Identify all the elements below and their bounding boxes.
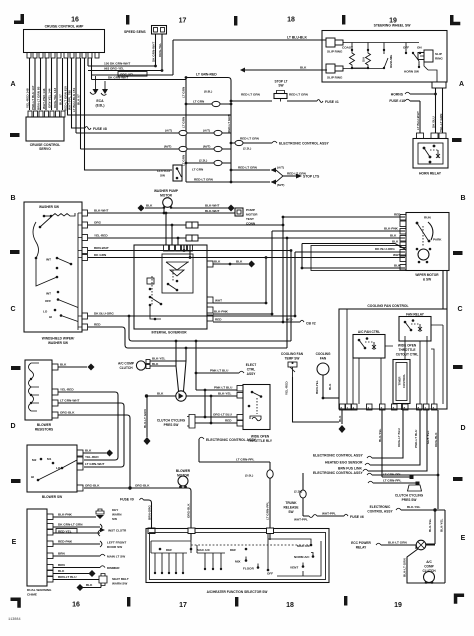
- svg-text:SW: SW: [160, 174, 165, 178]
- vertical riser BRN-WHT long: [290, 251, 292, 342]
- svg-text:DK BLU-ORG: DK BLU-ORG: [94, 312, 114, 316]
- wire WHT-PNK 146: [45, 58, 47, 110]
- svg-text:3: 3: [393, 406, 395, 410]
- svg-text:ORG-LT BLU: ORG-LT BLU: [213, 413, 233, 417]
- svg-text:ORG-BLK: ORG-BLK: [187, 503, 191, 518]
- svg-text:CLUTCH: CLUTCH: [119, 366, 133, 370]
- svg-text:ORG: ORG: [94, 221, 102, 225]
- svg-text:THROTTLE: THROTTLE: [399, 348, 416, 352]
- svg-text:ORG-BLK: ORG-BLK: [60, 411, 75, 415]
- dash right 2: [453, 251, 463, 255]
- wire ORG-YEL 143: [56, 58, 58, 110]
- chime pins: [47, 514, 53, 582]
- clutch cycling pres sw right: [408, 485, 422, 491]
- svg-text:ORG-YEL: ORG-YEL: [158, 43, 162, 57]
- wire BLK clutch: [150, 365, 176, 367]
- svg-text:BLK: BLK: [157, 392, 164, 396]
- svg-text:GRY-YEL: GRY-YEL: [426, 430, 430, 444]
- riser BLK-YEL 1: [434, 510, 436, 544]
- svg-text:DEF: DEF: [166, 548, 172, 552]
- wire LT GRN vertical: [185, 78, 187, 183]
- blower resistors R3: [25, 360, 52, 420]
- wire 963 ORG-YEL: [88, 70, 162, 72]
- svg-text:YEL-RED: YEL-RED: [285, 381, 289, 395]
- interval governor U3: [134, 245, 207, 329]
- svg-text:WHT-PPL: WHT-PPL: [294, 518, 308, 522]
- svg-text:BRN-ORG: BRN-ORG: [148, 505, 152, 520]
- svg-text:CLUTCH: CLUTCH: [157, 169, 170, 173]
- svg-text:16: 16: [71, 17, 79, 24]
- steering box wires inside: [343, 43, 419, 69]
- svg-text:WASHER SW: WASHER SW: [39, 205, 59, 209]
- wire BRN dimmer: [53, 567, 100, 569]
- svg-text:SLIP: SLIP: [435, 52, 442, 56]
- svg-text:BRN: BRN: [58, 552, 65, 556]
- svg-text:WHT: WHT: [393, 253, 400, 257]
- speed sensor wire DK GRN-WHT: [155, 34, 157, 66]
- svg-text:MAX A/C: MAX A/C: [297, 544, 311, 548]
- svg-text:150 DK GRN-WHT: 150 DK GRN-WHT: [104, 62, 130, 66]
- governor top pins: [164, 245, 193, 251]
- slip ring top: [326, 38, 335, 47]
- svg-text:(M/T): (M/T): [203, 145, 210, 149]
- svg-text:E: E: [461, 535, 466, 542]
- svg-text:LEFT FRONT: LEFT FRONT: [107, 541, 126, 545]
- vertical riser BLK-PNK: [271, 231, 273, 314]
- svg-text:MOTOR: MOTOR: [160, 194, 173, 198]
- svg-text:PARK: PARK: [433, 238, 442, 242]
- svg-text:RED: RED: [94, 323, 101, 327]
- wire ORG-BLK run to blower motor: [84, 488, 191, 528]
- amp connector pins: [27, 53, 99, 59]
- fuse #8: [85, 127, 91, 130]
- svg-text:RED: RED: [225, 419, 232, 423]
- svg-text:CONTROL: CONTROL: [402, 374, 406, 389]
- svg-text:LT GRN-PPL: LT GRN-PPL: [383, 479, 401, 483]
- svg-text:7: 7: [381, 406, 383, 410]
- svg-text:FUSE #6: FUSE #6: [350, 515, 364, 519]
- wire LT BLU-BLK top: [173, 39, 327, 41]
- svg-text:RED-LT GRN: RED-LT GRN: [240, 137, 260, 141]
- pump motor test conn: [235, 208, 243, 216]
- tick bottom 2: [235, 597, 238, 607]
- svg-text:LT GRN-PPL: LT GRN-PPL: [266, 502, 270, 520]
- svg-text:18: 18: [287, 17, 295, 24]
- svg-text:BLK-YEL: BLK-YEL: [152, 357, 166, 361]
- svg-text:HI: HI: [49, 315, 52, 319]
- svg-text:BLK: BLK: [146, 204, 153, 208]
- svg-text:COOLING: COOLING: [316, 352, 331, 356]
- svg-text:YEL-RED 148: YEL-RED 148: [26, 88, 30, 108]
- svg-text:DK BLU: DK BLU: [432, 116, 436, 128]
- svg-text:ELECTRONIC CONTROL ASSY: ELECTRONIC CONTROL ASSY: [279, 142, 329, 146]
- svg-text:FLOOR: FLOOR: [243, 567, 255, 571]
- throttle rly pins: [237, 386, 243, 427]
- dash left 3: [11, 366, 21, 370]
- svg-text:(8.8L): (8.8L): [204, 90, 212, 94]
- svg-text:S/A: S/A: [362, 56, 366, 62]
- wire BLK-WHT washer to test conn: [88, 212, 235, 214]
- wire WHT-PPL fuse6: [309, 515, 317, 518]
- dash left 4: [11, 479, 21, 483]
- svg-text:4: 4: [353, 406, 355, 410]
- svg-text:D: D: [460, 425, 465, 432]
- svg-text:1: 1: [347, 406, 349, 410]
- right bus from wiper: [442, 270, 444, 309]
- svg-text:C: C: [457, 306, 462, 313]
- wiper feed DK BLU-ORG: [295, 251, 405, 253]
- svg-text:D: D: [10, 423, 15, 430]
- svg-text:BLK-YEL: BLK-YEL: [440, 518, 444, 532]
- svg-text:MIX: MIX: [235, 560, 241, 564]
- svg-text:A/C FAN CTRL: A/C FAN CTRL: [358, 330, 380, 334]
- pressure sw wires ORG-LT BLU / RED: [195, 417, 237, 423]
- svg-text:HEATED EGO SENSOR: HEATED EGO SENSOR: [325, 461, 363, 465]
- svg-text:DK GRN-WHT: DK GRN-WHT: [108, 76, 128, 80]
- wire PNK-LT BLU 147: [34, 58, 36, 110]
- svg-text:BLOWER: BLOWER: [176, 469, 191, 473]
- svg-text:INTERVAL GOVERNOR: INTERVAL GOVERNOR: [151, 331, 187, 335]
- svg-text:LT GRN: LT GRN: [192, 168, 204, 172]
- svg-text:A/C: A/C: [426, 560, 432, 564]
- svg-text:(5.0L): (5.0L): [245, 474, 253, 478]
- svg-text:COMP: COMP: [424, 565, 434, 569]
- svg-text:RESISTORS: RESISTORS: [35, 428, 53, 432]
- svg-text:LT GRN: LT GRN: [182, 154, 186, 166]
- svg-text:HORN RELAY: HORN RELAY: [419, 172, 442, 176]
- corner top-right: [450, 15, 460, 25]
- wire LT GRN-PPL bus: [199, 461, 270, 463]
- speed sensor wire ORG-YEL: [161, 34, 163, 71]
- wire vertical node: [172, 40, 174, 75]
- tick bottom 1: [127, 597, 130, 607]
- svg-text:BRN: BRN: [58, 563, 65, 567]
- svg-text:YEL-RED: YEL-RED: [60, 388, 74, 392]
- wire BLK-PNK: [213, 313, 272, 315]
- svg-text:M2: M2: [32, 458, 37, 462]
- dual warning chime U4: [27, 509, 47, 586]
- wire ORG-BLK pin3b long: [437, 410, 439, 509]
- dash left 2: [10, 250, 20, 254]
- key warn sw: [96, 509, 104, 514]
- svg-text:YEL-LT GRN: YEL-LT GRN: [439, 113, 443, 132]
- svg-text:DK BLU-ORG: DK BLU-ORG: [375, 247, 395, 251]
- governor inner relay: [162, 254, 193, 293]
- svg-text:DOOR SW: DOOR SW: [107, 545, 122, 549]
- svg-text:COOLING FAN: COOLING FAN: [281, 352, 304, 356]
- svg-text:ELECT: ELECT: [246, 363, 257, 367]
- svg-text:CRUISE CONTROL AMP: CRUISE CONTROL AMP: [45, 25, 85, 29]
- resume switch: [383, 49, 385, 51]
- svg-text:BLK-YEL: BLK-YEL: [407, 505, 421, 509]
- svg-text:PNK-LT BLU: PNK-LT BLU: [214, 385, 233, 389]
- wire LT BLU-WHT: [419, 101, 421, 133]
- svg-text:ORG-LT BLU: ORG-LT BLU: [397, 427, 401, 447]
- wire ORG-YEL boxed: [92, 74, 174, 76]
- wiper feed BLK-PNK: [272, 230, 405, 232]
- svg-text:RED-LT GRN: RED-LT GRN: [241, 93, 261, 97]
- horn relay K1: [413, 139, 448, 169]
- svg-text:STEERING WHEEL SW: STEERING WHEEL SW: [374, 24, 412, 28]
- vertical riser YEL-RED long: [286, 238, 288, 348]
- wire RED-LT GRN low: [186, 181, 231, 183]
- stop lts arrow: [283, 175, 296, 177]
- wiper feed RED: [283, 216, 405, 218]
- dash right 1: [452, 138, 462, 142]
- servo connector pins: [28, 111, 65, 117]
- wiper feed BLK 1: [266, 237, 405, 239]
- wire BLK-YEL diode to rly: [186, 395, 237, 397]
- svg-text:BLK: BLK: [300, 66, 307, 70]
- wire LT GRN-WHT resistors: [58, 403, 124, 467]
- resistor washer: [52, 213, 75, 216]
- svg-text:WHT-PNK 146: WHT-PNK 146: [42, 88, 46, 109]
- svg-text:COOLING FAN CONTROL: COOLING FAN CONTROL: [367, 304, 408, 308]
- wire to clutch sw: [85, 58, 173, 170]
- svg-text:CLUTCH CYCLING: CLUTCH CYCLING: [157, 419, 186, 423]
- wire RED-LT GRN 810 to node: [68, 58, 232, 115]
- tick top 3: [342, 15, 345, 25]
- riser BLK-YEL 2: [444, 510, 446, 583]
- svg-text:TEMP SW: TEMP SW: [285, 357, 300, 361]
- ground diamond BLK: [240, 68, 245, 73]
- clutch circle: [424, 572, 435, 583]
- wire GRY-YEL pin8b: [368, 410, 427, 471]
- svg-text:BLK-PNK: BLK-PNK: [214, 310, 229, 314]
- svg-text:SW: SW: [112, 517, 117, 521]
- svg-text:A/C/HEATER FUNCTION SELECTOR S: A/C/HEATER FUNCTION SELECTOR SW: [207, 590, 268, 594]
- svg-text:CUTOUT CTRL: CUTOUT CTRL: [396, 353, 419, 357]
- svg-text:ORG-BLK: ORG-BLK: [135, 484, 150, 488]
- svg-text:WIDE OPEN: WIDE OPEN: [398, 344, 417, 348]
- washer sw S1: [24, 202, 82, 332]
- svg-text:E: E: [12, 539, 17, 546]
- a/c heater function selector sw S3: [146, 529, 329, 583]
- svg-text:BLK: BLK: [58, 569, 65, 573]
- svg-text:GRY-YEL 144: GRY-YEL 144: [48, 88, 52, 108]
- seat belt warn sw: [99, 576, 107, 583]
- svg-text:WASHER PUMP: WASHER PUMP: [154, 189, 179, 193]
- wire BRN-WHT: [88, 250, 291, 252]
- svg-text:BLK: BLK: [328, 383, 332, 390]
- svg-text:FUSE #9: FUSE #9: [120, 498, 134, 502]
- inline connector ORG: [186, 222, 192, 228]
- svg-text:LT GRN-WHT: LT GRN-WHT: [85, 462, 104, 466]
- svg-text:BLK-LT GRN: BLK-LT GRN: [143, 409, 147, 428]
- svg-text:RESUME: RESUME: [389, 55, 393, 68]
- inst clstr brace: [98, 524, 102, 536]
- horn relay pins: [417, 133, 424, 139]
- wire ORG-LT BLU pin7: [372, 410, 403, 458]
- svg-text:DK GRN: DK GRN: [94, 253, 107, 257]
- wire BLK seat belt ground: [83, 587, 101, 589]
- blower resistor pins: [52, 364, 58, 418]
- svg-text:RED-LT GRN: RED-LT GRN: [289, 93, 309, 97]
- svg-text:ECC POWER: ECC POWER: [351, 541, 371, 545]
- svg-text:LT BLU-WHT: LT BLU-WHT: [416, 111, 420, 130]
- wire 8.8L row: [186, 103, 231, 105]
- svg-text:COAST: COAST: [342, 46, 353, 50]
- wire DK GRN-LT GRN: [53, 526, 100, 528]
- svg-text:DEF: DEF: [230, 548, 236, 552]
- svg-text:WHT-PPL: WHT-PPL: [322, 512, 336, 516]
- svg-text:A/C COMP: A/C COMP: [118, 362, 135, 366]
- svg-text:& SW: & SW: [423, 278, 431, 282]
- svg-text:BLK: BLK: [390, 233, 397, 237]
- svg-text:WINDSHIELD WIPER/: WINDSHIELD WIPER/: [42, 337, 75, 341]
- svg-text:BLK: BLK: [86, 583, 93, 587]
- svg-text:(M/T): (M/T): [277, 183, 284, 187]
- wire BRN main lt: [53, 555, 100, 557]
- link lines to risers: [176, 341, 179, 391]
- selector pins top: [188, 528, 195, 534]
- svg-text:LO: LO: [43, 310, 48, 314]
- riser x205 x211: [204, 390, 206, 417]
- svg-text:BLOWER: BLOWER: [37, 423, 52, 427]
- svg-text:LT BLU-BLK 151: LT BLU-BLK 151: [72, 88, 76, 112]
- svg-text:BLK: BLK: [214, 260, 221, 264]
- ECA connector arrows: [96, 76, 106, 90]
- wire GRY-YEL 144: [51, 58, 53, 110]
- svg-text:M1: M1: [47, 457, 52, 461]
- svg-text:LT GRN-PPL: LT GRN-PPL: [236, 458, 254, 462]
- svg-text:PUMP: PUMP: [246, 208, 255, 212]
- selector internals: [191, 544, 310, 546]
- wire BLK resistors to arrow: [58, 366, 87, 368]
- wire BLK 57 second: [80, 58, 82, 149]
- svg-text:17: 17: [179, 602, 187, 609]
- svg-text:BLK-WHT: BLK-WHT: [94, 209, 109, 213]
- wire DK GRN: [88, 257, 266, 259]
- svg-text:FAN RELAY: FAN RELAY: [406, 313, 425, 317]
- cruise control servo: [26, 117, 64, 141]
- wire DK BLU-ORG: [88, 315, 295, 317]
- wiper feed BLK bottom: [302, 267, 405, 269]
- corner bottom-left: [10, 598, 20, 608]
- svg-text:RUN: RUN: [424, 216, 431, 220]
- wire to stop lts A/T: [231, 169, 270, 171]
- svg-text:A: A: [10, 81, 15, 88]
- svg-text:WARN SW: WARN SW: [112, 582, 127, 586]
- svg-text:BRN FUS LINK: BRN FUS LINK: [338, 466, 362, 470]
- svg-text:NORM A/C: NORM A/C: [294, 555, 310, 559]
- svg-text:(2.3L): (2.3L): [294, 490, 302, 494]
- svg-text:TEST: TEST: [246, 217, 254, 221]
- svg-text:DIMMER: DIMMER: [107, 566, 120, 570]
- blower sw S2: [27, 445, 77, 492]
- svg-text:RED: RED: [215, 318, 222, 322]
- svg-text:CLUTCH CYCLING: CLUTCH CYCLING: [395, 494, 424, 498]
- wire BLK-YEL from elec ctrl assy E: [396, 508, 401, 510]
- diode circle A/C: [176, 391, 186, 401]
- svg-text:BRN-WHT: BRN-WHT: [94, 246, 109, 250]
- steering bottom pin: [432, 82, 446, 88]
- svg-text:RED-LT GRN: RED-LT GRN: [227, 113, 231, 133]
- slip ring right: [424, 50, 433, 62]
- svg-text:PNK-LT BLU: PNK-LT BLU: [210, 369, 229, 373]
- svg-text:LT GRN: LT GRN: [182, 86, 186, 98]
- svg-text:PRES SW: PRES SW: [402, 498, 417, 502]
- svg-text:B: B: [10, 195, 15, 202]
- svg-text:OFF: OFF: [267, 572, 273, 576]
- svg-text:(2.3L): (2.3L): [199, 159, 207, 163]
- svg-text:SW: SW: [288, 510, 293, 514]
- svg-text:BLK-LT GRN: BLK-LT GRN: [403, 558, 407, 577]
- wire ORG: [88, 224, 283, 226]
- svg-text:LT GRN: LT GRN: [193, 100, 205, 104]
- wire WHT: [213, 302, 266, 304]
- wire RED-YEL boxed: [53, 532, 100, 534]
- wire DK BLU: [435, 88, 437, 133]
- wire elec ctrl assy right: [367, 456, 372, 458]
- svg-text:SLIP RING: SLIP RING: [327, 76, 343, 80]
- wire YEL-RED: [88, 237, 287, 239]
- electronic control assy label D: [199, 437, 204, 439]
- svg-text:DUAL WARNING: DUAL WARNING: [27, 588, 52, 592]
- svg-text:B: B: [460, 195, 465, 202]
- svg-text:BLK 57: BLK 57: [59, 94, 63, 105]
- resistor R2 s/a: [366, 50, 371, 68]
- svg-text:HI: HI: [31, 475, 34, 479]
- svg-text:MAX A/C: MAX A/C: [197, 548, 211, 552]
- svg-text:ASSY: ASSY: [247, 372, 257, 376]
- a/c comp clutch box bottom: [426, 543, 435, 545]
- svg-text:BLOWER SW: BLOWER SW: [42, 495, 62, 499]
- svg-text:RED-LT GRN: RED-LT GRN: [194, 178, 214, 182]
- svg-text:HORNS: HORNS: [391, 93, 404, 97]
- wire RED: [88, 327, 287, 348]
- svg-text:INST CLSTR: INST CLSTR: [108, 529, 127, 533]
- svg-text:(8.8L): (8.8L): [95, 104, 104, 108]
- tick top 2: [234, 16, 237, 26]
- svg-text:YEL-RED: YEL-RED: [94, 234, 108, 238]
- svg-text:(2.3L): (2.3L): [243, 147, 251, 151]
- svg-text:ECA: ECA: [96, 99, 104, 103]
- wire BRN-LT BLU seat belt: [53, 579, 99, 581]
- svg-text:FAN: FAN: [320, 357, 327, 361]
- wire DK GRN-WHT lower: [92, 79, 187, 81]
- wire brn fus link: [363, 469, 368, 471]
- svg-text:PRES SW: PRES SW: [164, 423, 179, 427]
- svg-text:(A/T): (A/T): [165, 129, 172, 133]
- slip ring bottom: [326, 64, 335, 73]
- wire PNK-LT BLU pin8: [370, 410, 420, 465]
- svg-text:MOTOR: MOTOR: [246, 213, 258, 217]
- wire electronic control assy: [231, 142, 272, 144]
- svg-text:LT GRN-RED: LT GRN-RED: [196, 73, 217, 77]
- svg-text:LT BLU-BLK: LT BLU-BLK: [287, 36, 307, 40]
- svg-text:16: 16: [72, 602, 80, 609]
- wire M/T row: [81, 148, 232, 150]
- svg-text:ORG-BLK: ORG-BLK: [85, 484, 100, 488]
- tick bottom 3: [344, 596, 347, 606]
- svg-text:BLK-YEL: BLK-YEL: [378, 428, 382, 442]
- wire ORG-BLK resistors: [58, 415, 130, 488]
- svg-text:WARN: WARN: [112, 513, 122, 517]
- svg-text:ORG-YEL 143: ORG-YEL 143: [53, 88, 57, 108]
- svg-text:SERVO: SERVO: [39, 147, 51, 151]
- svg-text:BLK-YEL: BLK-YEL: [218, 392, 232, 396]
- wire BLK-YEL clutch: [150, 360, 186, 362]
- wiper motor and sw M2: [406, 213, 449, 271]
- svg-text:HORN SW: HORN SW: [404, 70, 419, 74]
- svg-text:RELEASE: RELEASE: [283, 506, 298, 510]
- wire BLK 57: [62, 58, 64, 110]
- svg-text:STOP LTS: STOP LTS: [303, 175, 320, 179]
- svg-text:RING: RING: [435, 57, 443, 61]
- wire BLK ground row: [213, 263, 248, 265]
- svg-text:OFF: OFF: [45, 299, 51, 303]
